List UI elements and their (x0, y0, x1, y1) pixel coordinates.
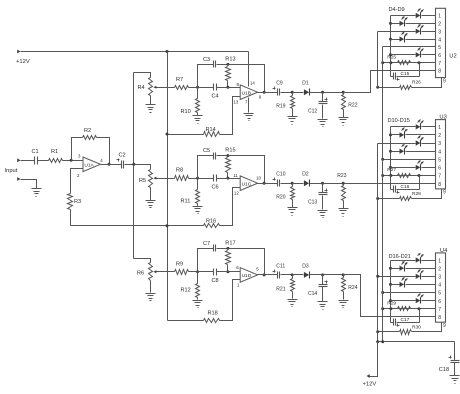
op-amp U1B pin 8 label (237, 82, 240, 87)
capacitor C14 label (308, 291, 317, 297)
wire LED to U3 pin6 (422, 167, 436, 169)
input port arrow (17, 158, 20, 162)
capacitor C13 (319, 189, 328, 195)
capacitor C5 label (203, 148, 210, 154)
svg-text:R2: R2 (84, 128, 91, 134)
diode group label D16-D21 (389, 254, 411, 260)
wire LED to U3 pin1 (422, 126, 436, 128)
svg-text:R26: R26 (412, 80, 421, 86)
wire D3 to C14 (310, 274, 323, 276)
svg-text:7: 7 (438, 174, 441, 180)
wire C13 to ground (322, 196, 324, 210)
svg-text:10: 10 (256, 176, 261, 181)
wire signal bus to R6 top (134, 259, 151, 263)
wire LED to U4 pin6 (422, 300, 436, 302)
wire R23 stub (343, 184, 345, 186)
ground R21 (288, 300, 298, 307)
wire R17 bottom (227, 265, 229, 272)
node C2 signal bus junction (132, 163, 135, 166)
resistor R1 label (51, 149, 58, 155)
wire C13 stub (322, 184, 324, 193)
svg-text:R23: R23 (337, 173, 346, 179)
resistor R22 label (348, 103, 357, 109)
capacitor C1 (35, 157, 38, 165)
wire R21 to ground (292, 292, 294, 299)
op-amp U1A pin 3 label (78, 154, 81, 159)
op-amp U1D pin 1 label (237, 282, 240, 287)
svg-text:6: 6 (438, 166, 441, 172)
net label +12V (16, 59, 30, 65)
wire C17 loop bottom right (397, 322, 420, 324)
svg-text:R1: R1 (51, 149, 58, 155)
resistor R10 label (181, 109, 191, 115)
net label +12V bottom (363, 382, 377, 388)
op-amp U1D (240, 268, 257, 283)
wire D1 to C12 (310, 92, 323, 94)
resistor R14 (204, 132, 220, 137)
U3 pin 9 label (443, 190, 446, 196)
wire R30 to bus (378, 331, 400, 333)
op-amp U1A (83, 157, 100, 172)
LED D10 (416, 120, 424, 130)
capacitor C1 label (32, 149, 39, 155)
resistor R28 label (412, 191, 421, 197)
wire C13 to R23 (323, 183, 344, 185)
wire node to R11 (197, 179, 199, 190)
svg-text:R4: R4 (138, 85, 145, 91)
wire bias row R16 (168, 225, 204, 227)
svg-text:11: 11 (233, 173, 238, 178)
node U4 R29 right (418, 307, 421, 310)
potentiometer R4 (149, 78, 159, 96)
svg-text:1: 1 (438, 125, 441, 131)
svg-text:C9: C9 (276, 81, 283, 87)
svg-text:R9: R9 (176, 261, 183, 267)
U3 pin 1 label (438, 125, 441, 131)
U3 pin 8 label (438, 182, 441, 188)
net label Input (5, 168, 18, 174)
capacitor C10 (273, 178, 280, 187)
svg-text:R22: R22 (348, 103, 357, 109)
U4 pin 6 label (438, 299, 441, 305)
svg-text:U4: U4 (440, 248, 448, 254)
wire U4 pin4 row (391, 284, 400, 286)
resistor R1 (49, 159, 63, 163)
capacitor C5 (214, 153, 216, 160)
resistor R25 label (387, 54, 396, 60)
U2 pin 2 label (438, 22, 441, 28)
svg-text:3: 3 (438, 29, 441, 35)
U2 pin 5 label (438, 45, 441, 51)
resistor R23 label (337, 173, 346, 179)
capacitor C13 label (308, 200, 317, 206)
node filter input U1D (196, 270, 199, 273)
wire U3 pin4 row (391, 151, 400, 153)
ground C14 (318, 302, 328, 310)
svg-text:C1: C1 (32, 149, 39, 155)
wire R22 stub (343, 93, 345, 95)
node R26 bus junction (376, 86, 379, 89)
svg-text:C3: C3 (203, 57, 210, 63)
wire U1B pin7 to ground (248, 98, 250, 113)
LED D12 (416, 136, 424, 147)
op-amp U1D name label (242, 273, 252, 279)
svg-text:C12: C12 (308, 109, 317, 115)
capacitor C11 label (276, 263, 285, 269)
U4 pin 8 label (438, 315, 441, 321)
wire +12V rail (21, 51, 249, 53)
resistor R21 label (276, 286, 285, 292)
wire bias bus vertical (167, 52, 169, 321)
wire U3 pin9 to R28 (412, 189, 442, 199)
display driver IC U2 (436, 8, 446, 77)
svg-text:2: 2 (438, 266, 441, 272)
U2 pin 8 label (438, 69, 441, 75)
potentiometer R6 (149, 263, 159, 281)
op-amp U1B pin 13 label (233, 100, 238, 105)
wire C16 loop bottom left (391, 189, 394, 191)
wire R12 to ground (197, 298, 199, 300)
wire +12V rail to U1B pin14 (248, 52, 250, 87)
node C12 junction (321, 91, 324, 94)
wire D3 output to U4 pin8 (344, 275, 436, 317)
op-amp U1D pin 5 label (256, 267, 259, 272)
wire rail to C18 (454, 342, 456, 361)
svg-text:D16-D21: D16-D21 (389, 254, 411, 260)
U4 pin 2 label (438, 266, 441, 272)
ground input (32, 189, 42, 197)
wire pot wiper to R8 (159, 178, 175, 180)
node U3 R27 left (389, 174, 392, 177)
U3 pin 3 label (438, 141, 441, 147)
wire R1 to U1A pin3 (63, 160, 84, 162)
node U2 row6 anode (389, 53, 392, 56)
node U2 R25 right (418, 61, 421, 64)
resistor R2 (83, 136, 97, 140)
ground R4 (146, 105, 156, 113)
wire LED to U4 pin1 (422, 260, 436, 262)
svg-text:R15: R15 (225, 148, 235, 154)
diode D3 (304, 272, 310, 279)
wire node to C4 (198, 87, 214, 89)
resistor R14 label (206, 127, 216, 133)
wire U1A pin2 to R3 (71, 169, 84, 194)
svg-text:C13: C13 (308, 200, 317, 206)
wire U4 pin7 row (383, 308, 436, 310)
resistor R20 label (276, 195, 285, 201)
capacitor C2 label (119, 153, 126, 159)
wire U2 pin1 row (391, 15, 416, 17)
wire U2 LED anode bus (390, 16, 392, 63)
capacitor C9 label (276, 81, 283, 87)
diode D3 label (302, 263, 309, 269)
wire U4 pin3 row (378, 276, 416, 278)
wire LED to U4 pin2 (406, 268, 436, 270)
op-amp U1B pin 7 label (245, 100, 248, 105)
diode D2 label (302, 172, 309, 178)
svg-text:R10: R10 (181, 109, 191, 115)
wire U3 pin7 row (383, 175, 436, 177)
ground R10 (193, 116, 203, 124)
wire C12 to R22 (323, 92, 344, 94)
resistor R25 (398, 61, 411, 65)
wire feedback top to output (228, 249, 265, 275)
U4 pin 7 label (438, 307, 441, 313)
resistor R13 label (225, 56, 235, 62)
svg-text:5: 5 (438, 291, 441, 297)
capacitor C17 label (401, 317, 410, 323)
node U2 pin7 bus junction (381, 61, 384, 64)
LED D8 (416, 48, 424, 58)
IC U2 label (449, 54, 456, 60)
wire U2 pin6 row (391, 54, 416, 56)
U2 pin 9 label (443, 78, 446, 84)
node bias bus R16 (166, 224, 169, 227)
resistor R11 label (181, 199, 191, 205)
resistor R30 (400, 330, 412, 335)
wire C14 to ground (322, 287, 324, 302)
svg-text:R17: R17 (225, 240, 235, 246)
wire C8 to U1D input (217, 271, 241, 273)
wire C16 loop bottom right (397, 189, 420, 191)
ground R6 (146, 294, 156, 301)
capacitor C15 (394, 73, 400, 81)
U3 pin 4 label (438, 149, 441, 155)
diode D1 (304, 89, 310, 96)
node U4 row6 anode (389, 299, 392, 302)
diode D2 (304, 180, 310, 187)
LED D5 (400, 16, 408, 26)
power port +12V bottom arrow (367, 374, 370, 378)
svg-text:R3: R3 (74, 199, 81, 205)
wire D2 to C13 (310, 183, 323, 185)
node bottom rail bus A (376, 340, 379, 343)
capacitor C9 (273, 87, 280, 96)
ground R11 (193, 207, 203, 214)
svg-text:7: 7 (438, 61, 441, 67)
wire LED bus A lower segment (377, 144, 379, 342)
capacitor C6 label (212, 184, 219, 190)
ground C13 (318, 211, 328, 218)
LED D17 (400, 261, 408, 271)
resistor R19 label (276, 104, 285, 110)
node U2 R25 left (389, 61, 392, 64)
wire node to C3 (198, 65, 214, 88)
wire feedback top to output (228, 156, 265, 184)
node bottom rail bus B (381, 340, 384, 343)
wire R21 stub (292, 275, 294, 279)
svg-text:C11: C11 (276, 263, 285, 269)
wire U2 pin7 row (383, 62, 436, 64)
wire node to C6 (198, 178, 214, 180)
op-amp U1A pin 2 label (77, 173, 80, 178)
diode D1 label (302, 81, 309, 87)
node R17 bottom (226, 270, 229, 273)
U4 pin 9 label (443, 323, 446, 329)
wire C16 loop left stub (390, 176, 392, 190)
svg-text:7: 7 (438, 307, 441, 313)
wire U3 pin6 row (391, 167, 416, 169)
node R1/R2 junction (70, 159, 73, 162)
wire U2 pin4 row (391, 39, 400, 41)
U3 pin 7 label (438, 174, 441, 180)
wire C4 to U1B input (217, 87, 241, 89)
resistor R20 (291, 187, 295, 200)
svg-text:+12V: +12V (16, 59, 30, 65)
ground R12 (193, 301, 203, 308)
resistor R10 (196, 99, 200, 113)
IC U4 label (440, 248, 448, 254)
resistor R2 label (84, 128, 91, 134)
svg-text:R12: R12 (181, 288, 191, 294)
svg-text:R30: R30 (412, 324, 421, 330)
wire R28 to bus (378, 198, 400, 200)
wire LED to U3 pin4 (406, 151, 436, 153)
node +12V to bias bus junction (166, 50, 169, 53)
wire U3 pin5 row (383, 159, 436, 161)
capacitor C12 label (308, 109, 317, 115)
resistor R27 label (387, 167, 396, 173)
wire R24 stub (343, 275, 345, 278)
resistor R8 (175, 176, 189, 181)
LED D20 (416, 294, 424, 304)
wire +12V feed drop (370, 342, 378, 377)
wire C17 loop right stub (419, 309, 421, 323)
svg-text:R13: R13 (225, 56, 235, 62)
wire R19 stub (292, 93, 294, 96)
node U1A output junction (108, 163, 111, 166)
wire R19 to ground (292, 109, 294, 117)
ground U1B pin7 (244, 114, 254, 121)
svg-text:C8: C8 (212, 278, 219, 284)
svg-text:R6: R6 (137, 271, 144, 277)
diode group label D10-D15 (388, 118, 410, 124)
node bias bus R14 (166, 133, 169, 136)
capacitor C4 (214, 84, 217, 91)
svg-text:6: 6 (438, 53, 441, 59)
svg-text:9: 9 (443, 190, 446, 196)
display driver IC U4 (436, 253, 446, 322)
LED D11 (400, 128, 408, 139)
potentiometer R4 label (138, 85, 145, 91)
svg-text:C4: C4 (212, 94, 219, 100)
resistor R12 label (181, 288, 191, 294)
U2 pin 3 label (438, 29, 441, 35)
svg-text:C7: C7 (203, 241, 210, 247)
wire signal bus to R5 top (134, 165, 151, 170)
wire R6 bottom to ground (150, 281, 152, 293)
svg-text:U1B: U1B (242, 91, 251, 97)
node R21 junction (291, 273, 294, 276)
wire R19 to D1 (293, 92, 304, 94)
wire bias bus to R14 (168, 134, 204, 136)
ground R22 (339, 118, 349, 126)
wire C12 to ground (322, 105, 324, 119)
diode group label D4-D9 (389, 7, 405, 13)
svg-text:R7: R7 (176, 77, 183, 83)
U2 pin 7 label (438, 61, 441, 67)
wire input to C1 (21, 160, 35, 162)
svg-text:C10: C10 (276, 172, 285, 178)
svg-text:U2: U2 (449, 54, 456, 60)
potentiometer R6 label (137, 271, 144, 277)
wire C14 to R24 (323, 274, 344, 276)
LED D16 (416, 253, 424, 264)
U2 pin 6 label (438, 53, 441, 59)
capacitor C8 label (212, 278, 219, 284)
wire R20 to D2 (293, 183, 304, 185)
wire C12 stub (322, 93, 324, 102)
node U3 R27 right (418, 174, 421, 177)
resistor R3 (68, 194, 73, 210)
resistor R8 label (176, 168, 183, 174)
svg-text:9: 9 (443, 78, 446, 84)
op-amp U1C pin 10 label (256, 176, 261, 181)
wire LED to U4 pin3 (422, 276, 436, 278)
node U1B output junction (263, 91, 266, 94)
node U4 pin7 bus junction (381, 307, 384, 310)
capacitor C3 (214, 61, 216, 68)
wire R3 to bias row (71, 210, 204, 226)
wire C15 loop left stub (390, 63, 392, 77)
wire U3 pin1 row (391, 126, 416, 128)
node U3 row6 anode (389, 166, 392, 169)
svg-text:R20: R20 (276, 195, 285, 201)
input ground port arrow (17, 177, 20, 181)
resistor R9 label (176, 261, 183, 267)
wire U1C output to C10 (258, 183, 278, 185)
wire node to C5 (198, 156, 214, 179)
wire U1D pin 1 to bias row (220, 280, 241, 321)
node C13 junction (321, 182, 324, 185)
wire LED to U4 pin4 (406, 284, 436, 286)
svg-text:D4-D9: D4-D9 (389, 7, 405, 13)
wire C2 to signal bus (125, 164, 134, 166)
wire U2 pin2 row (391, 23, 400, 25)
wire feedback top to output (228, 65, 265, 93)
U4 pin 3 label (438, 275, 441, 281)
node R15 top (226, 154, 229, 157)
wire C3 to R13 top (217, 64, 228, 66)
resistor R27 (398, 174, 411, 178)
wire LED to U2 pin3 (422, 31, 436, 33)
svg-text:C14: C14 (308, 291, 317, 297)
svg-text:C5: C5 (203, 148, 210, 154)
resistor R17 label (225, 240, 235, 246)
wire C16 loop right stub (419, 176, 421, 190)
svg-text:U3: U3 (439, 114, 446, 120)
node U1C output junction (263, 182, 266, 185)
wire U4 pin2 row (391, 268, 400, 270)
wire pot wiper to R9 (159, 271, 175, 273)
svg-text:3: 3 (438, 275, 441, 281)
LED D14 (416, 160, 424, 170)
wire C15 loop bottom right (397, 76, 420, 78)
capacitor C14 (319, 281, 328, 287)
wire C1 to R1 (38, 160, 49, 162)
resistor R3 label (74, 199, 81, 205)
svg-text:5: 5 (438, 45, 441, 51)
wire R7 to node (189, 87, 198, 89)
capacitor C10 label (276, 172, 285, 178)
resistor R22 (342, 95, 346, 110)
U4 pin 4 label (438, 283, 441, 289)
wire C7 to R17 top (217, 248, 228, 250)
node U4 R29 left (389, 307, 392, 310)
wire C17 loop left stub (390, 309, 392, 323)
wire C17 loop bottom left (391, 322, 394, 324)
wire R20 stub (292, 184, 294, 187)
